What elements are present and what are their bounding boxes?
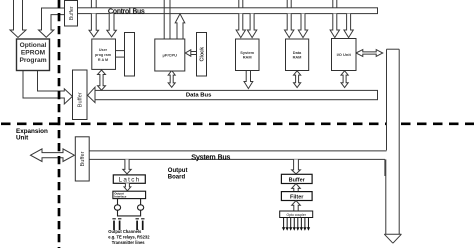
svg-text:Optional: Optional (20, 42, 47, 49)
svg-text:Latch: Latch (119, 177, 141, 184)
svg-text:Filter: Filter (290, 195, 304, 201)
svg-text:e.g. TE relays, RS232: e.g. TE relays, RS232 (108, 235, 150, 240)
svg-text:Unit: Unit (16, 135, 29, 142)
svg-text:Opto coupler: Opto coupler (286, 213, 306, 217)
svg-text:R A M: R A M (98, 58, 108, 62)
svg-text:Control Bus: Control Bus (108, 8, 145, 15)
svg-text:RAM: RAM (243, 55, 252, 60)
svg-text:Buffer: Buffer (69, 6, 75, 20)
svg-text:Transmitter lines: Transmitter lines (112, 240, 145, 245)
svg-text:prog ram: prog ram (95, 53, 112, 57)
svg-text:System Bus: System Bus (191, 152, 230, 161)
svg-text:Buffer: Buffer (80, 151, 86, 166)
svg-text:EPROM: EPROM (21, 49, 46, 56)
svg-text:RAM: RAM (293, 55, 302, 60)
svg-text:Program: Program (19, 57, 46, 64)
svg-text:User: User (99, 48, 108, 52)
svg-text:Output: Output (168, 168, 188, 174)
svg-text:Output Channels: Output Channels (108, 229, 142, 234)
svg-text:I/O Unit: I/O Unit (337, 52, 352, 57)
svg-text:Board: Board (168, 175, 186, 181)
svg-text:µP/CPU: µP/CPU (163, 52, 178, 57)
svg-text:Clock: Clock (199, 47, 205, 62)
svg-text:Interface: Interface (114, 195, 126, 199)
svg-text:Data Bus: Data Bus (186, 92, 212, 98)
svg-text:Buffer: Buffer (78, 92, 84, 107)
svg-text:Buffer: Buffer (289, 177, 306, 183)
